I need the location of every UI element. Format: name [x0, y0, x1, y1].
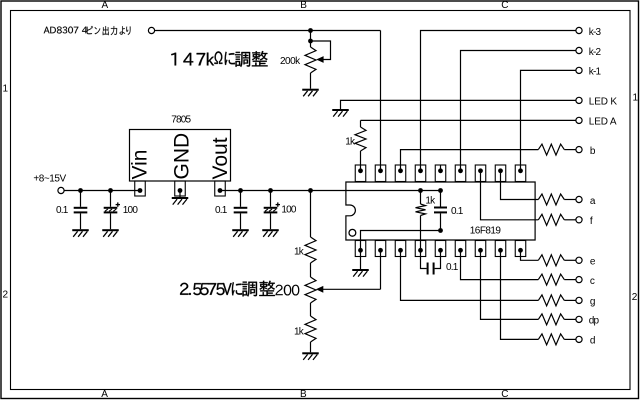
svg-text:7805: 7805: [171, 115, 191, 126]
wire Vss: [361, 231, 441, 251]
wire e resistor to terminal: [564, 259, 576, 261]
wire f from IC pin RB3: [481, 171, 539, 220]
junction input cap1: [78, 188, 83, 193]
potentiometer 200k wiper: [311, 41, 331, 60]
svg-text:A: A: [102, 0, 109, 11]
potentiometer 200 wiper: [316, 286, 323, 293]
terminal g: [576, 297, 582, 303]
potentiometer 200 body: [305, 277, 316, 303]
capacitor 0.1 input: [74, 207, 88, 209]
resistor 1k to LED A top lead: [360, 120, 362, 127]
svg-text:0.1: 0.1: [446, 262, 459, 273]
ground below divider: [302, 352, 319, 354]
svg-text:C: C: [501, 0, 508, 11]
capacitor 0.1 rail: [234, 207, 248, 209]
capacitor 100 rail bottom lead: [270, 213, 272, 229]
resistor segment b: [538, 144, 564, 155]
label 2.5575V adjust note: [180, 281, 275, 297]
svg-text:LED K: LED K: [589, 96, 618, 107]
capacitor 0.1 bottom (between pins 4 and 5): [427, 263, 429, 275]
capacitor 100 input (polarized): [104, 207, 118, 209]
svg-text:200k: 200k: [280, 56, 301, 67]
svg-text:0.1: 0.1: [215, 205, 228, 216]
label 147k adjust note: [171, 51, 267, 67]
resistor 1k divider top: [305, 237, 316, 263]
pin Vin dot: [138, 188, 143, 193]
wire Vout rail: [220, 190, 441, 192]
terminal LED A: [576, 117, 582, 123]
wire g from IC pin RA4: [401, 250, 539, 300]
svg-text:Vin: Vin: [129, 150, 152, 180]
wire 200k bottom lead: [310, 73, 312, 89]
pin 13 stub: [440, 165, 442, 171]
svg-text:B: B: [300, 389, 307, 400]
label 200: [276, 285, 300, 296]
junction rail 1k MCLR: [418, 188, 423, 193]
wire Vss pin to ground: [360, 250, 362, 269]
capacitor 100 rail top lead: [270, 191, 272, 207]
wire GND pin to ground: [179, 191, 181, 198]
wire input to Vin: [64, 190, 140, 192]
wire 1k to IC pin RA3: [360, 151, 362, 171]
capacitor 0.1 Vdd top lead: [440, 191, 442, 207]
svg-text:100: 100: [281, 205, 297, 216]
resistor segment f: [538, 214, 564, 225]
junction Vss wire: [438, 228, 443, 233]
wire 200k top lead: [310, 31, 312, 48]
terminal AD8307 input: [148, 27, 154, 33]
ground below input 100: [102, 229, 119, 231]
terminal d: [576, 336, 582, 342]
wire divider top lead: [310, 191, 312, 238]
resistor 1k to LED A: [355, 127, 366, 151]
resistor segment a: [538, 194, 564, 205]
svg-text:2: 2: [632, 292, 638, 303]
wire d from IC pin RB2: [501, 250, 539, 339]
svg-text:LED A: LED A: [589, 116, 617, 127]
IC 16F819 body with pin1 notch: [346, 182, 535, 240]
svg-text:100: 100: [123, 205, 139, 216]
junction wiper tie: [308, 39, 313, 44]
ground below 7805 GND: [172, 197, 189, 199]
svg-text:1: 1: [633, 92, 639, 103]
potentiometer 200k body: [305, 47, 316, 73]
capacitor 0.1 Vdd: [434, 207, 447, 209]
label AD8307 4-pin output note: [44, 26, 131, 35]
wire d resistor to terminal: [564, 338, 576, 340]
ground for LED K: [332, 109, 349, 111]
resistor segment e: [538, 255, 564, 266]
resistor segment c: [538, 274, 564, 285]
terminal +8~15V input: [58, 187, 64, 193]
wire divider mid2: [310, 303, 312, 316]
wire c resistor to terminal: [564, 279, 576, 281]
wire k-3 from IC pin RB6: [421, 31, 576, 171]
svg-text:+8~15V: +8~15V: [33, 173, 66, 184]
ground below input 0.1: [72, 229, 89, 231]
terminal LED K: [576, 97, 582, 103]
terminal k-1: [576, 67, 582, 73]
svg-text:k-3: k-3: [589, 27, 602, 38]
ground below pin 5: [352, 269, 369, 271]
svg-text:2: 2: [3, 289, 9, 300]
wire a from IC pin RB5: [501, 171, 539, 200]
ground below 200k: [302, 89, 319, 91]
wire k-1 from IC pin RB1: [521, 70, 576, 170]
wire c from IC pin RA7: [461, 250, 539, 279]
resistor segment g: [538, 295, 564, 306]
wire LED A from 1k: [361, 119, 576, 121]
svg-text:0.1: 0.1: [56, 205, 69, 216]
pin Vin box: [135, 181, 146, 196]
wire b from IC pin RB0: [401, 150, 539, 171]
wire divider mid1: [310, 263, 312, 277]
wire wiper to IC pin RA1: [380, 250, 382, 289]
wire dp resistor to terminal: [564, 318, 576, 320]
svg-text:0.1: 0.1: [451, 206, 464, 217]
capacitor 0.1 rail bottom lead: [240, 213, 242, 229]
pin Vout dot: [218, 188, 223, 193]
capacitor 100 input bottom lead: [110, 213, 112, 229]
junction rail cap4: [268, 188, 273, 193]
capacitor 0.1 input bottom lead: [80, 213, 82, 229]
capacitor 0.1 Vdd bottom lead: [440, 213, 442, 230]
capacitor 0.1 bottom left lead: [421, 250, 427, 268]
capacitor 100 input top lead: [110, 191, 112, 207]
wire g resistor to terminal: [564, 299, 576, 301]
terminal b: [576, 147, 582, 153]
wire LED K from ground: [341, 100, 576, 109]
IC top pins (18..10): [355, 165, 366, 182]
wire 1k MCLR to pin 4: [420, 216, 422, 251]
capacitor 0.1 input top lead: [80, 191, 82, 207]
terminal e: [576, 257, 582, 263]
svg-text:GND: GND: [171, 133, 194, 180]
capacitor 0.1 rail top lead: [240, 191, 242, 207]
wire b resistor to terminal: [564, 149, 576, 151]
pin GND dot: [178, 188, 183, 193]
svg-text:A: A: [101, 389, 108, 400]
svg-text:dp: dp: [589, 315, 600, 326]
svg-text:k-1: k-1: [589, 66, 602, 77]
capacitor 100 rail (polarized): [264, 207, 278, 209]
wire down to IC pin RA0: [380, 31, 382, 171]
terminal c: [576, 277, 582, 283]
wire dp from IC pin RA6: [481, 250, 539, 319]
svg-text:C: C: [501, 389, 508, 400]
wire e from IC pin RB7: [521, 250, 539, 260]
svg-text:B: B: [300, 0, 307, 11]
junction rail divider: [308, 188, 313, 193]
svg-text:Vout: Vout: [209, 137, 232, 179]
junction rail cap3: [238, 188, 243, 193]
terminal k-2: [576, 47, 582, 53]
wire AD8307 input to R pin: [155, 30, 381, 32]
terminal f: [576, 217, 582, 223]
IC 16F819 pin1 mark: [349, 229, 356, 236]
resistor 1k MCLR top lead: [420, 191, 422, 205]
wire divider bottom lead: [310, 342, 312, 352]
ground below rail 0.1: [232, 229, 249, 231]
wire a resistor to terminal: [564, 199, 576, 201]
capacitor 0.1 bottom right lead: [435, 250, 441, 268]
pin GND box: [175, 181, 186, 196]
resistor segment d: [538, 334, 564, 345]
wire f resistor to terminal: [564, 219, 576, 221]
pin Vout box: [215, 181, 226, 196]
IC bottom pins (1..9): [355, 241, 366, 257]
IC 7805 body: [130, 130, 231, 182]
svg-text:16F819: 16F819: [470, 225, 502, 236]
junction at 200k top: [308, 28, 313, 33]
resistor 1k divider bottom: [305, 316, 316, 342]
svg-text:k-2: k-2: [589, 47, 602, 58]
resistor 1k MCLR: [416, 204, 426, 216]
ground below rail 100: [262, 229, 279, 231]
svg-text:g: g: [590, 296, 595, 307]
junction input cap2: [108, 188, 113, 193]
svg-text:d: d: [590, 335, 595, 346]
svg-text:1: 1: [3, 84, 9, 95]
wire k-2 from IC pin RB4: [461, 51, 576, 171]
terminal a: [576, 196, 582, 202]
terminal dp: [576, 316, 582, 322]
resistor segment dp: [538, 314, 564, 325]
junction rail 0.1 vdd: [438, 188, 443, 193]
terminal k-3: [576, 27, 582, 33]
